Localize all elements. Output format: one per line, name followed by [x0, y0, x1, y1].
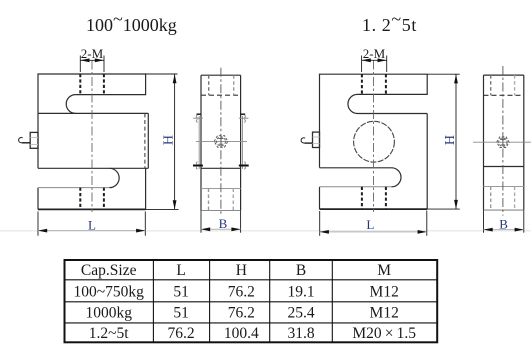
extension line left — [361, 56, 363, 73]
extension line left — [483, 210, 485, 233]
arrow right — [231, 227, 240, 231]
svg-text:L: L — [176, 262, 185, 279]
side body left edge — [200, 75, 202, 210]
vertical centerline drawing1 — [91, 61, 93, 213]
vertical centerline side view1 — [220, 68, 222, 216]
svg-text:M20 × 1.5: M20 × 1.5 — [352, 325, 416, 342]
tapped hole bottom left wall — [361, 187, 363, 209]
tapped hole top right wall — [103, 74, 105, 95]
bottom edge thick — [38, 208, 146, 210]
top block outline — [320, 74, 428, 167]
column divider 3 — [269, 260, 271, 342]
dim line — [80, 59, 104, 61]
horizontal centerline through gland — [196, 140, 247, 142]
vertical centerline drawing3 — [373, 61, 375, 213]
extension line right — [240, 211, 242, 233]
cable line — [22, 142, 30, 144]
tapped hole top left wall — [79, 74, 81, 95]
arrow left — [362, 58, 371, 62]
bottom hole hidden wall right — [514, 187, 516, 211]
extension line right — [144, 212, 146, 236]
arrow right — [378, 58, 387, 62]
extension line right — [103, 56, 105, 73]
svg-text:M12: M12 — [370, 305, 399, 322]
gland inner line 2 — [313, 143, 320, 145]
bottom block outline — [37, 188, 39, 210]
dim line — [320, 231, 427, 233]
left tab tick top — [197, 113, 202, 115]
top hole hidden wall left — [490, 75, 492, 95]
side slot upper boundary solid — [484, 166, 524, 168]
svg-text:76.2: 76.2 — [168, 325, 195, 342]
arrow right — [418, 230, 427, 234]
upper slot arc (rounded left end) — [348, 94, 358, 113]
hex gland nut side view2 — [497, 137, 509, 148]
svg-text:76.2: 76.2 — [228, 284, 255, 301]
H dimension drawing1 — [145, 74, 178, 209]
side slot lower boundary gray — [201, 188, 241, 190]
side slot lower boundary gray — [484, 186, 524, 188]
right web edge — [145, 168, 147, 209]
table header row — [81, 262, 391, 279]
arrow up — [454, 74, 458, 83]
column divider 2 — [209, 260, 211, 342]
lower slot bottom edge — [320, 186, 392, 188]
svg-text:2-M: 2-M — [363, 46, 386, 61]
cable line — [304, 142, 312, 144]
extension line top — [145, 73, 177, 75]
B dimension side view2 — [484, 210, 524, 233]
bottom hole hidden wall left — [208, 189, 210, 211]
column divider 1 — [152, 260, 154, 342]
side body left edge — [483, 75, 485, 210]
dim line — [38, 230, 145, 232]
row divider 2 — [65, 301, 438, 303]
2-M dimension drawing1 — [80, 56, 104, 73]
arrow up — [173, 74, 177, 83]
svg-text:M12: M12 — [370, 284, 399, 301]
side body bottom edge — [201, 210, 241, 212]
extension line bottom — [145, 208, 178, 210]
arrow right — [136, 229, 145, 233]
extension line left — [37, 212, 39, 236]
extension line left — [319, 211, 321, 236]
side body top edge — [201, 74, 241, 76]
side body top edge — [484, 74, 524, 76]
hidden hole depth line dashed — [484, 94, 524, 96]
column divider 4 — [331, 260, 333, 342]
faint scan band — [0, 230, 531, 232]
hidden edge dashed right of middle block — [144, 113, 146, 168]
dim line — [174, 74, 176, 209]
cable gland body — [30, 132, 38, 148]
middle block bottom edge — [320, 167, 392, 169]
svg-text:L: L — [366, 217, 374, 232]
table row 1000kg — [85, 305, 398, 322]
side body right edge — [240, 75, 242, 210]
tapped hole bottom left wall — [79, 188, 81, 210]
gland inner line 2 — [30, 143, 38, 145]
bottom edge thick — [320, 208, 428, 210]
side body right edge — [523, 75, 525, 210]
svg-text:51: 51 — [173, 284, 189, 301]
arrow left — [201, 227, 210, 231]
vertical centerline side view2 — [502, 66, 504, 216]
arrow left — [320, 230, 329, 234]
right tab curls — [244, 115, 245, 169]
svg-text:2-M: 2-M — [81, 46, 104, 61]
tapped hole bottom right wall — [385, 187, 387, 209]
arrow left — [80, 58, 89, 62]
upper slot arc (rounded left end) — [66, 95, 75, 114]
cable gland body — [313, 132, 320, 147]
L dimension drawing1 — [38, 212, 145, 236]
cable curl — [301, 138, 305, 143]
svg-text:B: B — [499, 216, 508, 231]
bottom hole hidden wall right — [232, 189, 234, 211]
side body bottom edge — [484, 209, 524, 211]
svg-text:Cap.Size: Cap.Size — [81, 262, 137, 279]
gland inner line 1 — [313, 136, 320, 138]
tapped hole top right wall — [385, 74, 387, 94]
middle block top edge — [38, 112, 148, 114]
horizontal centerline through gland — [473, 141, 531, 143]
svg-text:100.4: 100.4 — [224, 325, 259, 342]
extension line right — [426, 211, 428, 236]
middle block right edge — [147, 113, 149, 168]
left tab gray tick — [193, 117, 203, 119]
row divider 1 — [65, 279, 438, 281]
table row 100~750kg — [74, 284, 399, 301]
gland inner detail — [500, 138, 505, 146]
H dimension drawing3 — [427, 74, 459, 209]
L dimension drawing3 — [320, 211, 427, 236]
right edge below slot — [426, 114, 428, 210]
svg-text:25.4: 25.4 — [287, 305, 314, 322]
svg-text:51: 51 — [173, 305, 189, 322]
row divider 3 — [65, 322, 438, 324]
dim line — [455, 74, 457, 209]
right tab gray tick — [239, 117, 249, 119]
svg-text:H: H — [161, 135, 176, 145]
svg-text:H: H — [443, 135, 458, 145]
table row 1.2~5t — [89, 325, 416, 342]
left edge middle section — [37, 113, 39, 168]
lower slot arc (rounded right end) — [392, 168, 402, 187]
arrow left — [38, 229, 47, 233]
top hole hidden wall right — [233, 75, 235, 95]
extension line top — [427, 73, 459, 75]
svg-text:1.2~5t: 1.2~5t — [89, 325, 130, 342]
hex gland nut side view1 — [214, 136, 228, 148]
gland circle — [217, 137, 226, 146]
extension line bottom — [427, 208, 459, 210]
arrow down — [454, 200, 458, 209]
upper slot bottom edge — [358, 113, 428, 115]
right tab edge — [242, 116, 244, 169]
top hole hidden wall left — [208, 75, 210, 95]
dim line — [201, 228, 241, 230]
svg-text:1000kg: 1000kg — [85, 305, 132, 322]
B dimension side view1 — [201, 211, 241, 233]
gland inner detail — [218, 137, 223, 146]
side slot upper boundary solid — [201, 167, 241, 169]
middle block bottom edge — [38, 167, 148, 169]
svg-text:B: B — [219, 216, 228, 231]
extension line left — [79, 56, 81, 73]
tapped hole bottom right wall — [103, 188, 105, 210]
svg-text:100~750kg: 100~750kg — [74, 284, 145, 301]
table outer border — [65, 260, 438, 342]
left tab edge — [198, 116, 200, 169]
arrow left — [484, 228, 493, 232]
svg-text:19.1: 19.1 — [287, 284, 314, 301]
2-M dimension drawing3 — [362, 56, 387, 73]
dim line — [484, 229, 524, 231]
lower slot arc (rounded right end) — [110, 168, 120, 187]
bottom block left edge — [319, 187, 321, 209]
right tab tick bottom — [239, 165, 249, 167]
svg-text:76.2: 76.2 — [228, 305, 255, 322]
top hole hidden wall right — [514, 75, 516, 95]
extension line right — [386, 56, 388, 73]
top block outline — [38, 74, 146, 113]
lower slot bottom edge — [38, 187, 110, 189]
left tab curls — [196, 115, 197, 169]
tapped hole top left wall — [361, 74, 363, 94]
gland inner line 1 — [30, 137, 38, 139]
svg-text:L: L — [88, 218, 96, 233]
gland circle — [499, 138, 507, 146]
center through hole circle — [354, 121, 395, 162]
svg-text:H: H — [236, 262, 247, 279]
svg-text:31.8: 31.8 — [287, 325, 314, 342]
extension line right — [523, 210, 525, 233]
arrow right — [95, 58, 104, 62]
arrow down — [173, 200, 177, 209]
extension line left — [200, 211, 202, 233]
cable curl — [19, 137, 23, 142]
left tab tick bottom — [193, 165, 203, 167]
bottom hole hidden wall left — [490, 187, 492, 211]
arrow right — [515, 228, 524, 232]
dim line — [362, 59, 387, 61]
hidden hole depth line dashed — [201, 94, 241, 96]
svg-text:B: B — [296, 262, 306, 279]
svg-text:M: M — [377, 262, 391, 279]
right tab tick top — [240, 113, 245, 115]
